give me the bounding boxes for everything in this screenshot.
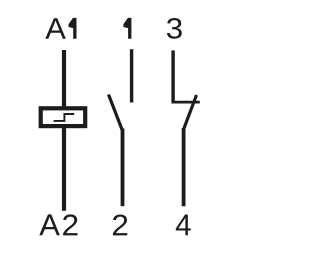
terminal label A1 [45,18,76,39]
terminal label A2 [39,214,77,235]
wire NO contact to terminal 2 [121,129,125,207]
wire terminal 1 to NO contact [130,49,133,102]
terminal label 1 [123,18,131,39]
wire NC contact to terminal 4 [182,128,186,206]
coil step-function symbol [54,114,75,121]
NC contact 3-4 moving blade [184,95,197,128]
terminal label 2 [113,214,127,235]
terminal label 4 [176,214,191,235]
NC contact 3-4 fixed contact bar [172,101,200,104]
terminal label 3 [167,18,182,39]
wire terminal 3 to NC contact [171,50,174,103]
wire A1 to coil [62,50,66,108]
NO contact 1-2 moving blade [109,95,123,130]
coil K1 (impulse relay coil box) [41,108,85,126]
wire coil to A2 [62,127,66,211]
